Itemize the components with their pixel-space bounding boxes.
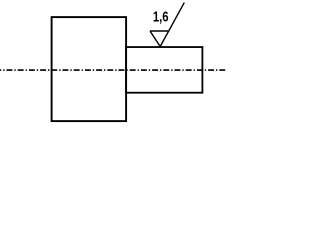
svg-text:1,6: 1,6 xyxy=(153,9,169,25)
